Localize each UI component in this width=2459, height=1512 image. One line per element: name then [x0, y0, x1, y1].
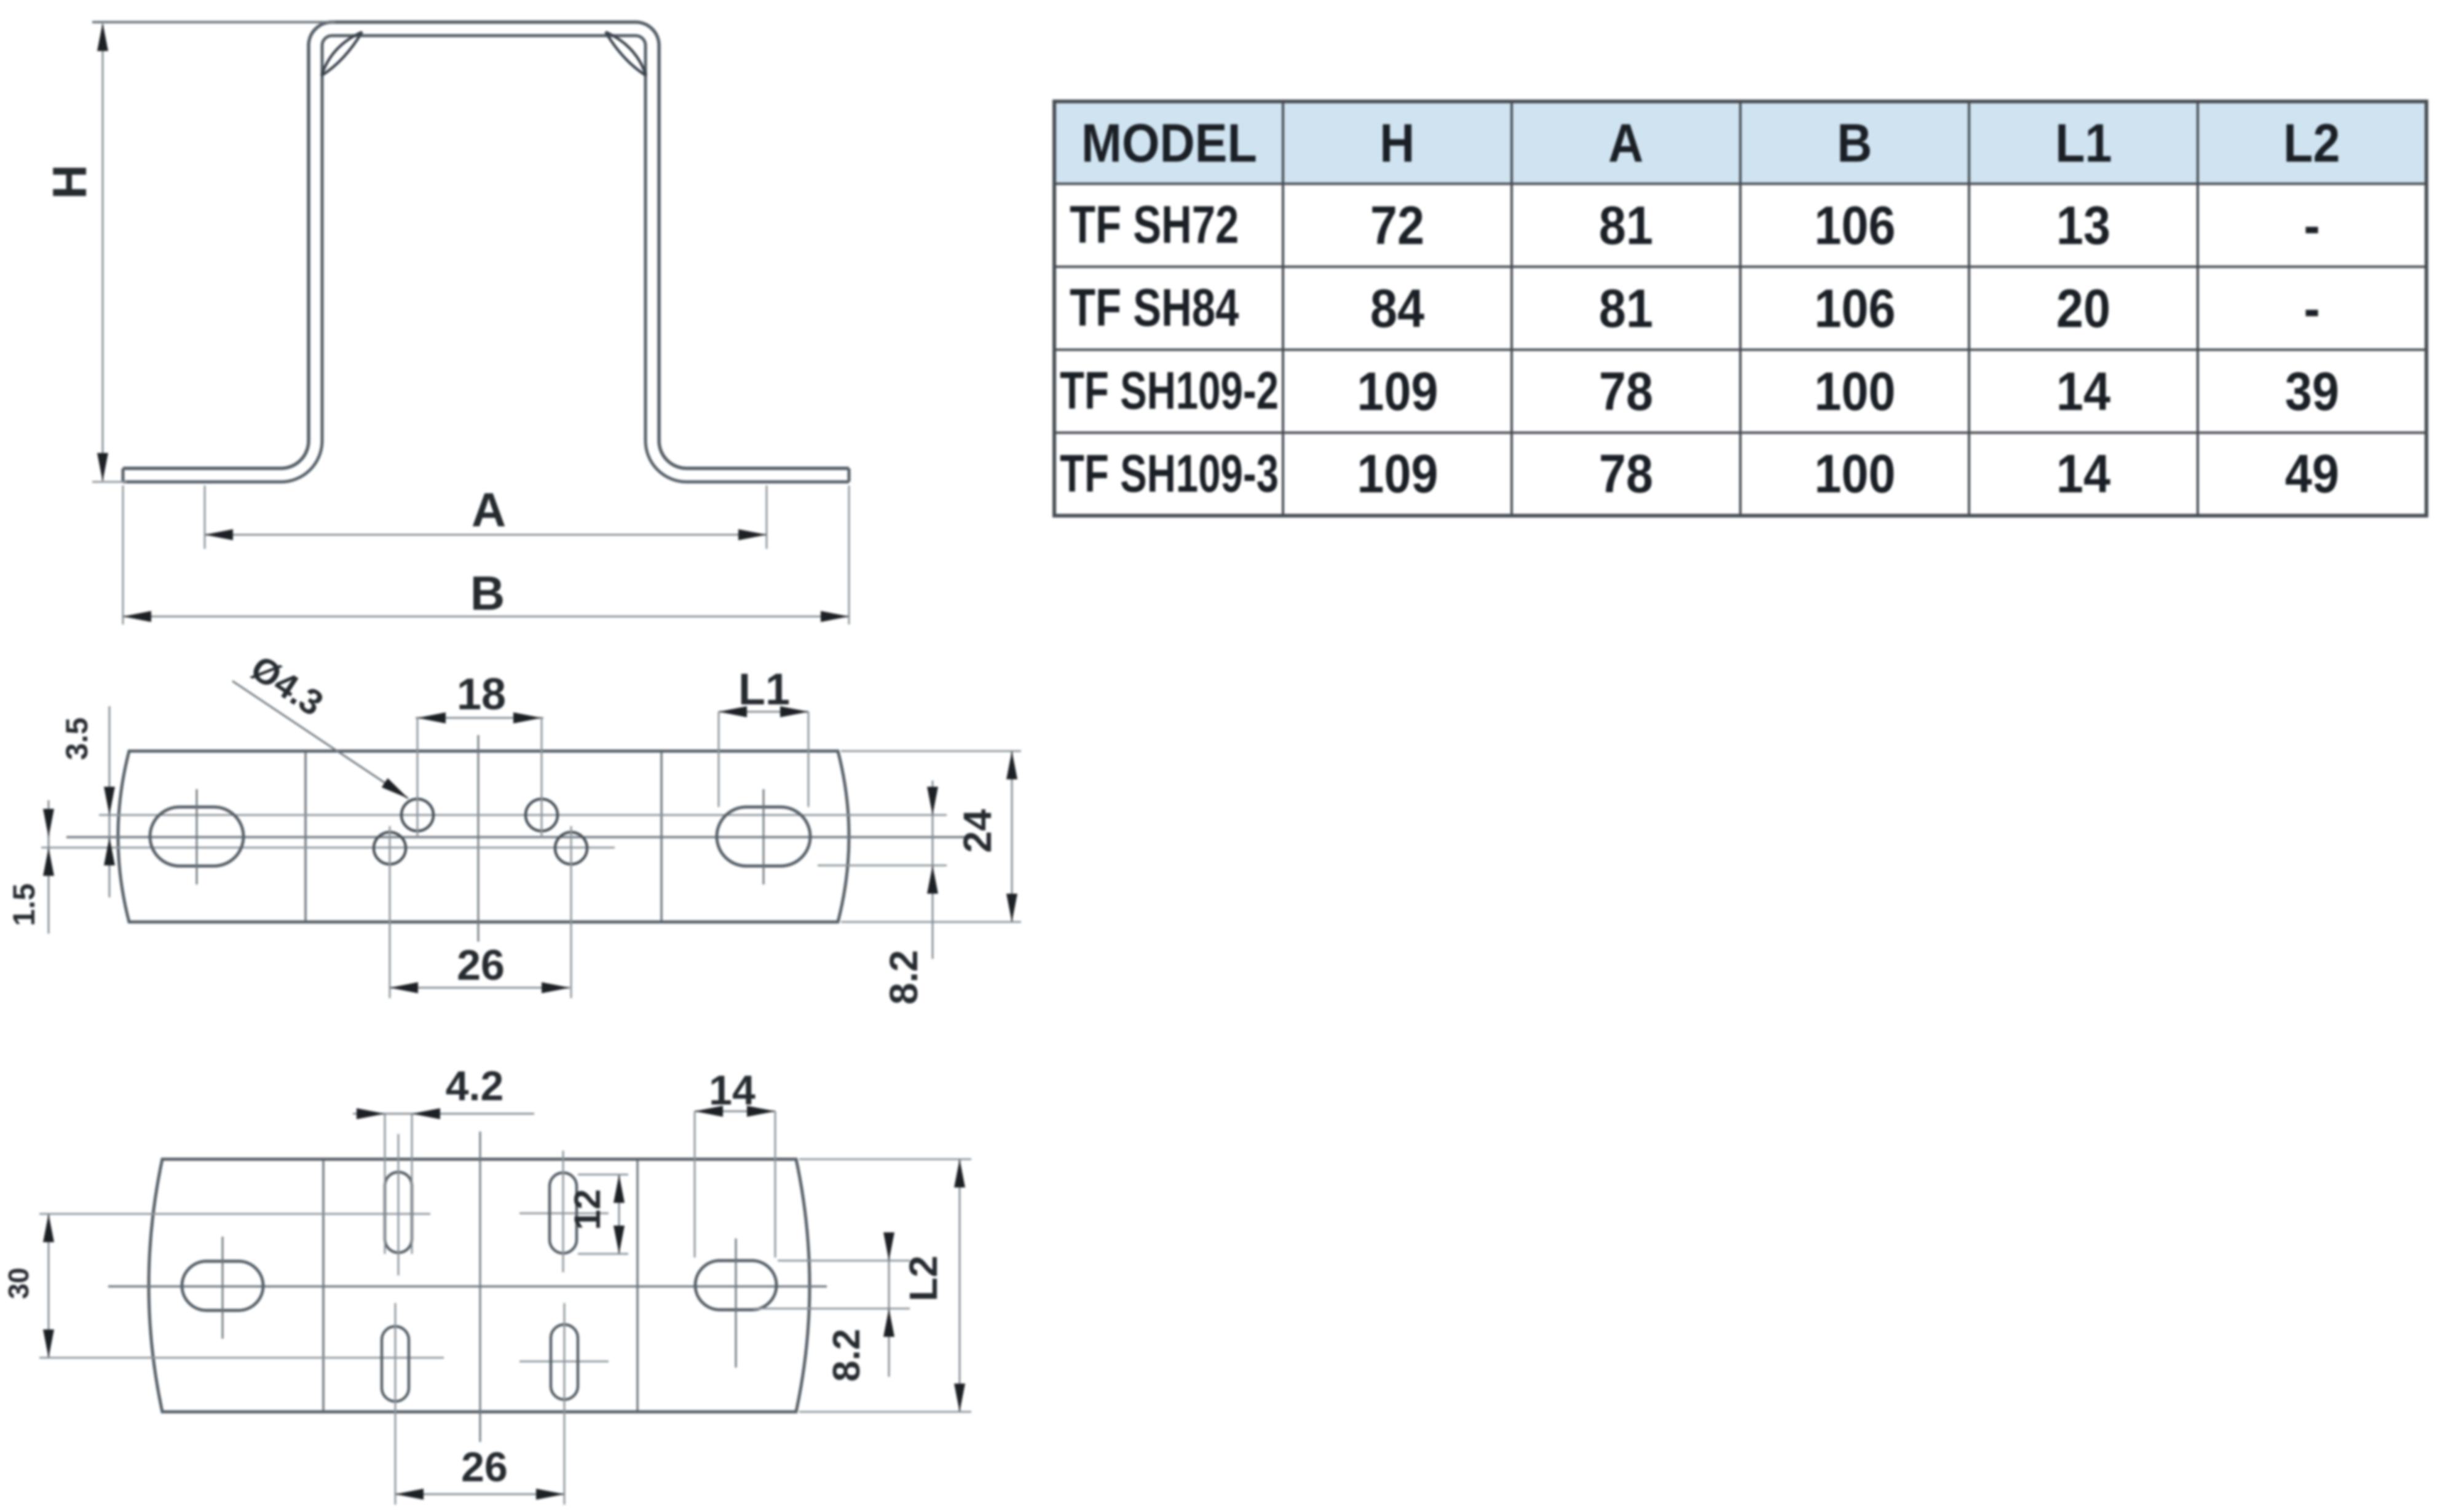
bend mark leaf top-right: [606, 32, 646, 76]
left slot (top view): [150, 807, 243, 866]
dimension 4.2 extension right: [411, 1114, 413, 1254]
bend line left (bottom view): [322, 1160, 325, 1411]
extension line hole bottom-left: [389, 826, 391, 998]
dimension 8.2 extension bottom (bottom view): [753, 1308, 910, 1310]
top slots reference line: [39, 1213, 430, 1215]
dimension 8.2 arrow lower: [927, 865, 938, 894]
dimension H extension top: [92, 21, 335, 23]
bend mark leaf top-left: [322, 32, 362, 76]
dimension L1 extension left: [718, 712, 720, 807]
dimension 26 line (bottom view): [395, 1494, 564, 1495]
slot bottom-right vertical: [551, 1325, 578, 1400]
right slot (bottom view): [695, 1261, 776, 1310]
svg-text:Ø4.3: Ø4.3: [243, 648, 330, 724]
dimension 24 extension bottom: [841, 921, 1021, 923]
dimension 3.5 arrow lower: [104, 837, 115, 865]
left slot centerline: [196, 789, 198, 884]
svg-text:30: 30: [2, 1267, 34, 1299]
bottom holes reference line: [41, 847, 615, 849]
dimension L1 arrow left: [719, 706, 747, 717]
svg-text:8.2: 8.2: [826, 1329, 868, 1382]
svg-text:L2: L2: [901, 1256, 945, 1302]
dimension 24 arrow top: [1006, 751, 1017, 779]
right slot (top view): [717, 807, 810, 866]
right slot centerline: [763, 789, 765, 884]
top-right slot cross line: [519, 1213, 609, 1215]
svg-text:24: 24: [955, 809, 1000, 853]
dimension 12 line: [618, 1175, 620, 1254]
top holes reference line: [99, 814, 947, 816]
dimension A arrow left: [205, 529, 233, 540]
hat profile inner outline: [123, 36, 849, 482]
left slot vertical centerline: [222, 1237, 224, 1339]
dimension 26 arrow left: [390, 982, 418, 993]
dimension B extension left: [122, 486, 124, 624]
dimension 4.2 line: [353, 1113, 534, 1115]
dimension L1 line: [719, 711, 808, 713]
slot top-right centerline: [562, 1151, 564, 1272]
flat pattern top view plate outline: [118, 751, 849, 922]
dimension 12 arrow bottom: [614, 1226, 625, 1254]
slot bottom-left vertical: [382, 1326, 409, 1401]
dimension 12 arrow top: [614, 1175, 625, 1203]
dimension 12 extension top: [578, 1174, 628, 1176]
dimension B line: [123, 616, 849, 618]
dimension A extension left: [204, 486, 206, 549]
dimension 30 line: [48, 1214, 50, 1358]
extension line hole top-right: [541, 718, 543, 837]
svg-text:1.5: 1.5: [7, 883, 41, 926]
dimension 14 extension right: [775, 1111, 776, 1258]
dimension 18 arrow right: [513, 712, 542, 723]
bend line right (bottom view): [636, 1160, 639, 1411]
svg-text:4.2: 4.2: [446, 1063, 504, 1109]
dimension 12 extension bottom: [578, 1253, 628, 1255]
dimension A arrow right: [738, 529, 767, 540]
svg-text:L1: L1: [738, 665, 790, 714]
dimension L2 arrow bottom: [954, 1384, 965, 1412]
extension line hole top-left: [417, 718, 419, 837]
dimension 1.5 arrow lower: [43, 848, 54, 876]
svg-text:26: 26: [461, 1444, 508, 1490]
dimension 26 arrow left (bottom view): [395, 1489, 424, 1500]
vertical centerline (top view): [478, 735, 480, 942]
dimension L2 extension bottom: [799, 1411, 971, 1413]
dimension 8.2 arrow upper (bottom view): [883, 1232, 894, 1261]
horizontal centerline (bottom view): [108, 1285, 827, 1288]
dimension L1 extension right: [808, 712, 810, 807]
dimension 24 line: [1011, 751, 1013, 922]
slot top-right vertical: [550, 1173, 577, 1253]
dimension H extension bottom: [92, 481, 127, 483]
dimension 14 extension left: [694, 1111, 696, 1258]
dimension B extension right: [848, 486, 850, 624]
dimension H arrow top: [97, 23, 108, 51]
vertical centerline (bottom view): [480, 1132, 481, 1442]
dimension A extension right: [766, 486, 768, 549]
slot bottom reference line right: [818, 865, 947, 867]
dimension B arrow right: [821, 611, 849, 622]
dimension 24 extension top: [841, 750, 1021, 752]
dimension H line: [102, 25, 104, 481]
svg-text:12: 12: [567, 1189, 608, 1230]
dimension 14 arrow left: [695, 1106, 723, 1117]
leader arrow: [382, 778, 408, 798]
bend line right (top view): [660, 752, 663, 921]
bottom-right slot cross line: [519, 1361, 609, 1363]
dimension 8.2 arrow lower (bottom view): [883, 1309, 894, 1337]
dimension L2 extension top: [799, 1159, 971, 1160]
dimension 1.5 arrow upper: [43, 809, 54, 837]
dimension 3.5 arrow upper: [104, 787, 115, 815]
dimension 4.2 arrow right: [412, 1108, 440, 1119]
right slot vertical centerline: [735, 1238, 737, 1368]
dimension 18 line: [416, 717, 543, 719]
svg-text:14: 14: [709, 1067, 756, 1114]
dimension 30 arrow top: [43, 1214, 54, 1242]
svg-text:3.5: 3.5: [60, 717, 94, 760]
hat profile outer outline: [123, 22, 849, 468]
dimension 8.2 arrow upper: [927, 787, 938, 815]
dimension 8.2 extension top (bottom view): [778, 1260, 910, 1262]
dimension 1.5 line: [48, 800, 50, 934]
dimension 26 arrow right: [542, 982, 570, 993]
svg-text:26: 26: [457, 941, 505, 989]
dimension 3.5 line: [109, 706, 111, 897]
svg-text:H: H: [42, 165, 97, 199]
extension line hole bottom-right: [570, 826, 572, 998]
dimension L2 line: [959, 1159, 961, 1412]
leader line diameter 4.3: [232, 681, 408, 798]
hole top-right: [526, 799, 558, 831]
slot bottom-right centerline: [564, 1303, 566, 1505]
dimension 8.2 line (bottom view): [888, 1233, 890, 1377]
bend line left (top view): [304, 752, 307, 921]
dimension 8.2 line (top view): [932, 781, 934, 959]
dimension 26 arrow right (bottom view): [536, 1489, 564, 1500]
dimension 18 arrow left: [417, 712, 446, 723]
dimension L1 arrow right: [780, 706, 808, 717]
spec table: [1052, 100, 2425, 514]
dimension B arrow left: [123, 611, 151, 622]
hole bottom-right: [555, 832, 587, 864]
slot top-left centerline: [398, 1134, 400, 1275]
dimension A line: [205, 534, 767, 536]
hole top-left: [401, 799, 433, 831]
dimension H arrow bottom: [97, 453, 108, 481]
flat pattern bottom view plate outline: [149, 1159, 810, 1412]
svg-text:B: B: [470, 566, 505, 620]
dimension L2 arrow top: [954, 1159, 965, 1187]
dimension 4.2 arrow left: [357, 1108, 385, 1119]
hat left foot end cap: [122, 468, 125, 482]
dimension 24 arrow bottom: [1006, 894, 1017, 922]
dimension 4.2 extension left: [384, 1114, 386, 1254]
hole bottom-left: [374, 832, 406, 864]
dimension 14 line: [695, 1111, 775, 1112]
bottom slots reference line: [39, 1357, 444, 1359]
dimension 26 line (top view): [389, 987, 570, 989]
hat right foot end cap: [848, 468, 851, 482]
svg-text:A: A: [472, 482, 506, 537]
slot top-left vertical: [385, 1172, 412, 1253]
slot bottom-left centerline: [395, 1303, 397, 1505]
dimension 14 arrow right: [747, 1106, 775, 1117]
svg-text:8.2: 8.2: [882, 950, 926, 1005]
horizontal centerline (top view): [66, 836, 979, 838]
dimension 30 arrow bottom: [43, 1329, 54, 1358]
left slot (bottom view): [182, 1261, 263, 1310]
svg-text:18: 18: [457, 670, 506, 719]
